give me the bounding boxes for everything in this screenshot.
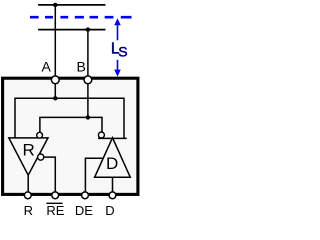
wire net A horizontal with drops to receiver input and driver output bbox=[15, 98, 124, 138]
svg-text:RE: RE bbox=[46, 203, 64, 216]
svg-text:B: B bbox=[77, 59, 86, 75]
junction dot on lower bus at B bbox=[86, 27, 90, 31]
svg-text:S: S bbox=[118, 44, 127, 60]
terminal B circle on box top edge bbox=[84, 76, 92, 84]
svg-text:R: R bbox=[24, 203, 33, 216]
pin RE circle bbox=[52, 192, 59, 199]
pin D circle bbox=[109, 192, 116, 199]
terminal A circle on box top edge bbox=[51, 76, 59, 84]
wire B inside box down to node bbox=[87, 80, 89, 118]
receiver R triangle bbox=[9, 138, 48, 175]
junction dot node A net bbox=[53, 96, 57, 100]
dimension arrow Ls lower segment bbox=[117, 60, 119, 73]
wire receiver output to pin R bbox=[27, 175, 29, 193]
wire B vertical from lower bus to terminal B bbox=[87, 30, 89, 80]
inverting output bubble of driver (B output) bbox=[98, 132, 104, 138]
wire bus line lower bbox=[38, 29, 105, 31]
receiver enable bubble on right edge (RE) bbox=[38, 154, 44, 160]
svg-text:D: D bbox=[106, 154, 118, 173]
driver D triangle bbox=[95, 138, 131, 178]
wire net B horizontal with drops to receiver bubble and driver bubble bbox=[40, 117, 102, 132]
junction dot node B net bbox=[86, 115, 90, 119]
inverting input bubble on receiver (B input) bbox=[37, 132, 43, 138]
dimension arrow Ls upper segment bbox=[117, 22, 119, 41]
wire A inside box down to node bbox=[54, 80, 56, 99]
overline for RE bbox=[46, 202, 62, 204]
wire A vertical from top bus to terminal A bbox=[54, 5, 56, 80]
pin DE circle bbox=[82, 192, 89, 199]
dimension arrowhead up bbox=[114, 18, 121, 25]
wire bus line top bbox=[38, 4, 105, 6]
wire driver input from pin D bbox=[112, 177, 114, 193]
wire DE pin to driver enable bbox=[85, 158, 103, 193]
dimension arrowhead down bbox=[114, 70, 121, 77]
junction dot on top bus at A bbox=[53, 3, 57, 7]
svg-text:A: A bbox=[42, 59, 52, 75]
stub length dashed line Ls reference bbox=[30, 16, 132, 19]
svg-text:DE: DE bbox=[75, 203, 93, 216]
IC package box U1 bbox=[3, 78, 138, 194]
driver output bar to net A bbox=[98, 137, 127, 139]
wire RE pin to receiver enable bubble bbox=[44, 157, 56, 193]
svg-text:D: D bbox=[105, 203, 114, 216]
pin R circle bbox=[24, 192, 31, 199]
svg-text:R: R bbox=[23, 141, 35, 160]
